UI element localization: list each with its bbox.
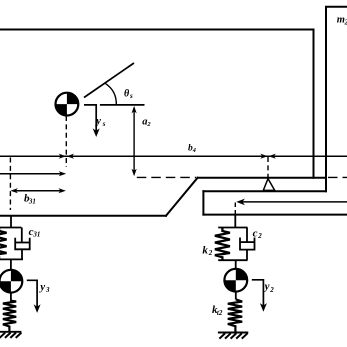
y3 displacement arrow: [27, 280, 37, 307]
beam left edge: [202, 191, 204, 214]
damper c31 cup: [15, 238, 30, 250]
damper c2 rod: [246, 228, 248, 243]
svg-text:3: 3: [45, 286, 50, 294]
ground right: [218, 333, 248, 339]
y_s displacement arrow: [84, 105, 96, 132]
left suspension top bar: [0, 227, 22, 229]
tire spring kt3: [3, 301, 16, 332]
dashed roll axis y=177.4: [137, 176, 196, 178]
svg-text:2: 2: [269, 286, 274, 294]
svg-text:y: y: [263, 281, 270, 293]
damper c2 stem: [246, 250, 248, 261]
left suspension attach stub: [10, 216, 12, 228]
pivot triangle on beam: [263, 179, 274, 191]
stem to right wheel mass: [235, 260, 237, 269]
svg-text:31: 31: [32, 231, 40, 239]
svg-text:2: 2: [257, 232, 262, 240]
dimension chain line: [0, 155, 347, 157]
svg-text:t2: t2: [217, 309, 223, 317]
dashed node line x=66.3: [65, 116, 67, 167]
right suspension bottom bar: [218, 259, 247, 261]
theta_s angle arc: [105, 83, 116, 105]
ground left: [0, 332, 21, 338]
damper c31 rod: [21, 228, 23, 243]
svg-text:s: s: [102, 120, 106, 128]
arrow from m2 to beam joint: [240, 201, 347, 203]
damper c31 stem: [21, 249, 23, 259]
pitch incline line: [84, 63, 134, 98]
dimension line b3 (cropped left): [0, 173, 61, 175]
tire spring kt2: [228, 299, 242, 332]
sprung mass body outline (top edge): [0, 29, 314, 31]
svg-text:31: 31: [28, 197, 36, 205]
spring k3 (cropped at left edge): [0, 228, 7, 260]
svg-text:k: k: [202, 244, 208, 256]
svg-text:2: 2: [208, 249, 213, 257]
a2 dimension arrow: [133, 108, 135, 174]
mass m2 box: [326, 7, 347, 191]
dashed node line x=268: [267, 157, 269, 178]
left suspension bottom bar: [0, 258, 23, 260]
body right edge: [313, 30, 315, 178]
dashed drop from joint: [234, 203, 236, 216]
stem to left wheel mass: [10, 259, 12, 270]
beam bottom edge: [203, 214, 347, 216]
body bottom edge: [0, 215, 166, 217]
svg-text:c: c: [253, 227, 258, 239]
dimension b31: [13, 190, 63, 192]
damper c2 piston: [240, 241, 255, 243]
twist beam (axle) top edge: [203, 190, 326, 192]
dim arrowheads at x=268: [260, 154, 276, 159]
svg-text:4: 4: [192, 147, 196, 154]
CoM symbol left wheel mass: [0, 270, 22, 293]
stem to tire spring left: [10, 293, 12, 301]
damper c2 cup: [240, 238, 255, 250]
CoM symbol right wheel mass: [224, 269, 247, 292]
body lower-right edge: [198, 177, 327, 179]
right suspension top bar: [218, 227, 247, 229]
stem to tire spring right: [235, 292, 237, 300]
dashed node line x=10.4: [9, 158, 11, 211]
svg-text:s: s: [129, 92, 133, 100]
damper c31 piston: [15, 242, 30, 244]
svg-text:2: 2: [146, 121, 151, 128]
pitch reference line: [100, 104, 145, 106]
svg-text:y: y: [94, 116, 101, 127]
spring k2: [215, 228, 230, 261]
CoM symbol sprung mass: [56, 93, 79, 116]
solid drop to right suspension: [234, 215, 236, 228]
y2 displacement arrow: [252, 280, 264, 307]
svg-text:y: y: [38, 281, 45, 293]
svg-text:2: 2: [344, 19, 347, 27]
body diagonal edge: [166, 178, 198, 216]
dim arrowheads at x=66: [59, 154, 74, 159]
